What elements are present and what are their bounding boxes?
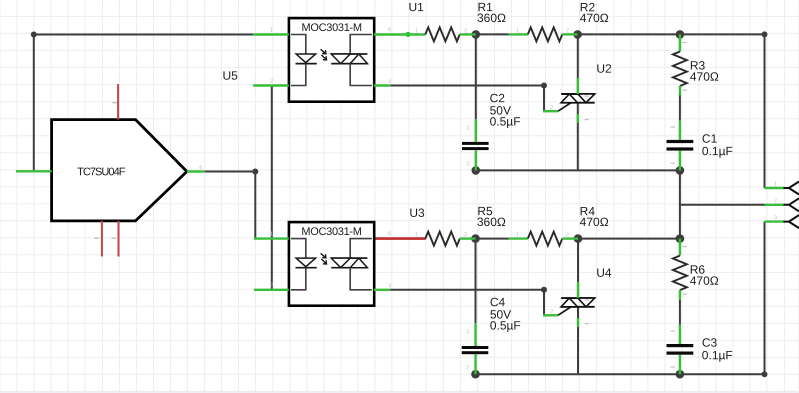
label U3: [409, 206, 425, 220]
label C3 value: [702, 336, 733, 363]
U5 pin 3 stub bottom: [118, 221, 120, 257]
svg-text:TC7SU04F: TC7SU04F: [77, 166, 126, 178]
label C4 value: [490, 295, 521, 332]
wire bottom horizontal: [476, 373, 765, 375]
wire net1 top-left vertical segment: [31, 32, 37, 172]
U2 terminal tiny marks: [585, 96, 589, 121]
svg-text:2: 2: [566, 28, 569, 34]
U1 pin 6 leg green wire to R1: [374, 27, 426, 37]
transistor U4 triac: [543, 282, 595, 327]
svg-text:2: 2: [464, 28, 467, 34]
svg-text:4: 4: [199, 165, 203, 171]
svg-text:0.5µF: 0.5µF: [490, 318, 521, 332]
node junction R6 top: [676, 234, 685, 243]
svg-text:MOC3031-M: MOC3031-M: [301, 226, 361, 238]
wire U1 pin2 to U3 pin2 vertical: [271, 86, 273, 290]
svg-text:1: 1: [516, 28, 519, 34]
svg-text:1: 1: [270, 28, 273, 34]
svg-text:1: 1: [774, 181, 777, 187]
svg-text:1: 1: [466, 125, 469, 131]
wire R3 to C1: [679, 96, 681, 121]
label R3 value: [690, 59, 719, 84]
resistor R2: [509, 27, 578, 41]
svg-text:2: 2: [774, 198, 777, 204]
svg-text:U2: U2: [596, 62, 612, 76]
svg-text:4: 4: [388, 79, 392, 85]
U1 internal light arrows: [321, 49, 327, 60]
U3 internal photo-triac: [331, 239, 372, 290]
U5 pin 5 power stub top: [117, 84, 119, 120]
svg-text:2: 2: [550, 105, 553, 111]
svg-text:6: 6: [388, 27, 391, 33]
resistor R4: [509, 232, 578, 246]
U5 input pin leg: [16, 170, 52, 172]
label R6 value: [690, 263, 719, 288]
label C1 value: [702, 132, 733, 159]
node junction R4-U4: [574, 234, 583, 243]
opto-isolator U3 MOC3031-M box: [289, 222, 374, 306]
label R2 value: [580, 0, 609, 25]
svg-text:470Ω: 470Ω: [690, 274, 719, 288]
C2 pin tiny marks: [466, 125, 469, 167]
op-amp U5 TC7SU04F inverter body: [52, 120, 187, 221]
svg-text:1: 1: [270, 232, 273, 238]
node junction R3 top: [676, 30, 685, 39]
svg-text:3: 3: [774, 215, 777, 221]
node junction C3 bottom: [676, 370, 685, 379]
svg-text:2: 2: [466, 365, 469, 371]
svg-text:U3: U3: [409, 206, 425, 220]
svg-text:U4: U4: [596, 266, 612, 280]
U4 terminal tiny marks: [585, 300, 589, 325]
U1 pin 2 leg: [253, 79, 289, 86]
U5 output pin 4 leg: [187, 165, 205, 171]
svg-text:470Ω: 470Ω: [580, 11, 609, 25]
U5 pin2 tiny mark: [94, 238, 99, 239]
capacitor C4: [462, 323, 489, 374]
svg-text:2: 2: [550, 309, 553, 315]
node junction C4 bottom: [471, 370, 480, 379]
wire connector pin3 down right column: [762, 222, 768, 378]
connector J pin 2: [765, 198, 799, 211]
wire R6 to C3: [679, 300, 681, 325]
label U1: [408, 0, 424, 14]
svg-text:1: 1: [415, 232, 418, 238]
svg-text:U1: U1: [408, 0, 424, 14]
capacitor C3: [667, 325, 694, 374]
svg-text:470Ω: 470Ω: [690, 70, 719, 84]
wire R4 to R6 junction: [578, 238, 680, 240]
U1 pin 4 leg: [374, 79, 393, 85]
U3 pin 4 leg: [374, 231, 418, 290]
node junction C2 bottom: [472, 166, 481, 175]
U5 pin5 tiny mark: [113, 102, 118, 103]
C3 pin tiny marks: [671, 331, 675, 368]
R3 pin tiny marks: [683, 42, 687, 91]
wire C2 top vertical: [475, 34, 477, 119]
connector J pin 1: [765, 181, 799, 194]
label R4 value: [580, 204, 609, 229]
U3 pin 2 leg: [254, 283, 289, 290]
wire U4 MT2 up: [577, 239, 579, 284]
svg-text:360Ω: 360Ω: [477, 215, 506, 229]
wire C4 top vertical: [475, 239, 477, 324]
U3 pin 1 leg: [254, 232, 289, 239]
opto-isolator U1 MOC3031-M box: [289, 18, 374, 102]
wire mid horizontal C2-C1: [476, 169, 680, 171]
wire U3 pin4 to U4 gate: [390, 287, 547, 316]
U1 internal LED: [291, 35, 317, 86]
node junction R2-U2: [573, 30, 582, 39]
wire R2 to R3 to right column: [578, 31, 768, 188]
svg-text:2: 2: [466, 161, 469, 167]
svg-text:1: 1: [516, 232, 519, 238]
label R1 value: [477, 0, 506, 25]
svg-text:1: 1: [415, 28, 418, 34]
wire U2 MT1 down: [577, 103, 579, 171]
U3 internal LED: [291, 239, 317, 290]
wire U2 MT2 up: [577, 34, 579, 80]
U3 internal light arrows: [321, 253, 327, 264]
wire U5 output to U3 pin1: [205, 169, 259, 239]
svg-text:U5: U5: [222, 69, 238, 83]
C4 pin tiny marks: [466, 329, 469, 371]
svg-text:6: 6: [388, 231, 391, 237]
node junction R1-C2: [472, 30, 481, 39]
wire R1 to R2: [476, 33, 509, 35]
svg-text:2: 2: [566, 232, 569, 238]
wire R5 to R4: [476, 238, 509, 240]
svg-text:470Ω: 470Ω: [580, 215, 609, 229]
svg-text:4: 4: [388, 283, 392, 289]
U5 pin3 tiny mark: [112, 238, 117, 239]
label U2: [596, 62, 612, 76]
svg-text:MOC3031-M: MOC3031-M: [301, 22, 361, 34]
transistor U2 triac: [543, 78, 595, 123]
label R5 value: [477, 204, 506, 229]
svg-text:360Ω: 360Ω: [477, 11, 506, 25]
U1 internal photo-triac: [331, 35, 372, 86]
wire U4 MT1 down: [577, 307, 579, 374]
resistor R3: [673, 34, 687, 95]
U1 pin 1 leg: [253, 28, 289, 35]
node junction C1 bottom: [676, 166, 685, 175]
wire C1 to R4 junction vertical: [679, 170, 681, 238]
resistor R1: [425, 27, 476, 41]
svg-text:2: 2: [270, 79, 273, 85]
connector J pin 3: [765, 215, 799, 228]
label U5: [222, 69, 238, 83]
capacitor C2: [462, 119, 489, 170]
wire connector pin2 horizontal: [680, 204, 765, 206]
svg-text:0.5µF: 0.5µF: [490, 114, 521, 128]
label U4: [596, 266, 612, 280]
resistor R5: [425, 232, 475, 246]
svg-text:1: 1: [466, 329, 469, 335]
resistor R6: [673, 239, 687, 300]
C1 pin tiny marks: [671, 127, 675, 164]
wire net1 top horizontal to U1 pin1: [34, 34, 253, 36]
wire U1 pin4 to U2 gate: [390, 83, 547, 112]
svg-text:2: 2: [270, 283, 273, 289]
wire U3 pin6 red to R5: [373, 237, 425, 240]
svg-text:0.1µF: 0.1µF: [702, 348, 733, 362]
capacitor C1: [667, 121, 694, 171]
node junction R5-C4: [471, 234, 480, 243]
R6 pin tiny marks: [683, 246, 687, 295]
svg-text:0.1µF: 0.1µF: [702, 144, 733, 158]
label C2 value: [490, 91, 521, 128]
svg-text:2: 2: [464, 232, 467, 238]
U5 pin 2 stub bottom: [101, 221, 103, 257]
